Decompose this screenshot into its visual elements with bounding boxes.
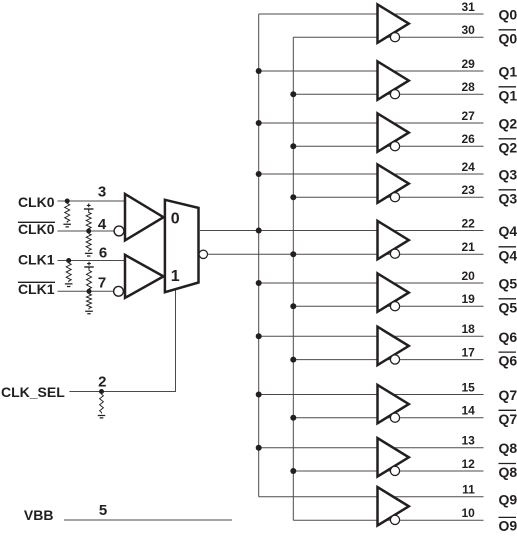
wire Q8 true row bbox=[259, 447, 484, 449]
svg-text:Q5: Q5 bbox=[499, 276, 517, 292]
svg-text:13: 13 bbox=[461, 434, 475, 448]
bias terminal VT2 bbox=[87, 262, 91, 266]
svg-text:7: 7 bbox=[98, 275, 106, 292]
wire Q2 complement row bbox=[293, 145, 483, 147]
wire Q3 complement row bbox=[293, 196, 483, 198]
resistor R5 (bias upper) bbox=[87, 269, 92, 290]
node complement bus junction Q2 bbox=[290, 143, 296, 149]
node CLK_SEL junction bbox=[99, 389, 104, 394]
svg-text:24: 24 bbox=[461, 160, 475, 174]
svg-text:Q8: Q8 bbox=[499, 464, 517, 480]
svg-text:15: 15 bbox=[461, 380, 475, 394]
output buffer Q9 bbox=[378, 487, 409, 525]
wire Q7 complement row bbox=[293, 417, 483, 419]
net label Q3 bar bbox=[499, 190, 517, 207]
net label Q6 bar bbox=[499, 352, 517, 369]
output buffer Q1 bbox=[378, 61, 409, 99]
svg-text:CLK_SEL: CLK_SEL bbox=[1, 384, 65, 400]
net label Q5 bar bbox=[499, 299, 517, 316]
svg-text:Q3: Q3 bbox=[499, 190, 517, 206]
output buffer Q7 bbox=[378, 385, 409, 423]
VBB label pin 5 bbox=[24, 502, 107, 523]
node CLK0 junction bbox=[65, 199, 70, 204]
svg-text:Q4: Q4 bbox=[499, 247, 517, 263]
wire Q3 true row bbox=[259, 173, 484, 175]
svg-text:27: 27 bbox=[461, 109, 475, 123]
svg-text:14: 14 bbox=[461, 404, 475, 418]
wire Q7 true row bbox=[259, 394, 484, 396]
resistor R2 (bias upper) bbox=[86, 211, 91, 230]
bubble Q9 complement output bbox=[390, 515, 399, 524]
bubble Q8 complement output bbox=[390, 466, 399, 475]
svg-text:Q8: Q8 bbox=[499, 440, 517, 456]
node complement bus junction Q5 bbox=[290, 303, 296, 309]
node CLK0bar junction bbox=[86, 229, 91, 234]
net label Q8 bar bbox=[499, 464, 517, 481]
node CLK1 junction bbox=[66, 258, 71, 263]
svg-text:2: 2 bbox=[98, 373, 106, 390]
svg-text:22: 22 bbox=[461, 216, 475, 230]
input buffer U2 (CLK0) bbox=[125, 194, 164, 240]
bubble U3 inverting input bbox=[114, 286, 124, 296]
wire CLK1bar bbox=[58, 290, 115, 292]
input CLK0 label pin 3 bbox=[18, 183, 106, 210]
wire Q6 complement row bbox=[293, 359, 483, 361]
svg-text:0: 0 bbox=[171, 211, 180, 228]
wire Q5 complement row bbox=[293, 305, 483, 307]
bubble Q0 complement output bbox=[390, 33, 399, 42]
wire Q6 true row bbox=[259, 335, 484, 337]
svg-text:Q0: Q0 bbox=[499, 30, 517, 46]
wire Q9 true row bbox=[259, 496, 484, 498]
node true bus junction Q5 bbox=[256, 280, 262, 286]
wire Q9 complement row bbox=[293, 519, 483, 521]
wire mux complement output bbox=[208, 253, 294, 255]
wire Q2 true row bbox=[259, 122, 484, 124]
input buffer U3 (CLK1) bbox=[125, 255, 164, 298]
wire Q0 true row bbox=[259, 13, 484, 15]
svg-text:21: 21 bbox=[461, 240, 475, 254]
wire mux true output bbox=[199, 230, 259, 232]
mux U1 2:1 bbox=[165, 200, 199, 292]
svg-text:26: 26 bbox=[461, 132, 475, 146]
svg-text:Q9: Q9 bbox=[499, 518, 517, 532]
output buffer Q4 bbox=[378, 221, 409, 259]
wire CLK_SEL bbox=[69, 290, 175, 392]
svg-text:CLK0: CLK0 bbox=[18, 221, 55, 237]
wire CLK0 bbox=[58, 200, 126, 202]
output buffer Q6 bbox=[378, 327, 409, 365]
output buffer Q5 bbox=[378, 273, 409, 311]
CLK0bar label pin 4 bbox=[18, 216, 107, 237]
svg-text:VBB: VBB bbox=[24, 507, 54, 523]
bubble Q3 complement output bbox=[390, 193, 399, 202]
node true bus junction Q6 bbox=[256, 333, 262, 339]
bubble Q7 complement output bbox=[390, 413, 399, 422]
node true bus junction Q1 bbox=[256, 68, 262, 74]
bubble mux complement output bbox=[199, 250, 207, 258]
net label Q2 bar bbox=[499, 139, 517, 156]
resistor R3 (bias lower) bbox=[85, 232, 93, 256]
CLK_SEL label pin 2 bbox=[1, 373, 106, 400]
node true bus junction Q4 bbox=[256, 228, 262, 234]
bubble Q6 complement output bbox=[390, 355, 399, 364]
output buffer Q2 bbox=[378, 113, 409, 151]
bubble U2 inverting input bbox=[114, 226, 124, 236]
svg-text:31: 31 bbox=[461, 0, 475, 14]
wire Q8 complement row bbox=[293, 470, 483, 472]
svg-text:Q7: Q7 bbox=[499, 411, 517, 427]
CLK1bar label pin 7 bbox=[18, 275, 106, 298]
wire Q4 true row bbox=[259, 230, 484, 232]
node CLK1bar junction bbox=[87, 289, 92, 294]
svg-text:19: 19 bbox=[461, 292, 475, 306]
svg-text:11: 11 bbox=[462, 483, 475, 497]
node complement bus junction Q4 bbox=[290, 251, 296, 257]
output buffer Q0 bbox=[378, 4, 409, 42]
wire Q5 true row bbox=[259, 282, 484, 284]
wire Q0 complement row bbox=[293, 36, 483, 38]
bus complement vertical bbox=[292, 37, 294, 520]
output buffer Q8 bbox=[378, 438, 409, 476]
node complement bus junction Q8 bbox=[290, 468, 296, 474]
svg-text:Q6: Q6 bbox=[499, 329, 517, 345]
svg-text:Q6: Q6 bbox=[499, 353, 517, 369]
output buffer Q3 bbox=[378, 164, 409, 202]
node true bus junction Q8 bbox=[256, 445, 262, 451]
svg-text:Q2: Q2 bbox=[499, 139, 517, 155]
svg-text:Q1: Q1 bbox=[499, 64, 517, 80]
wire VBB pin 5 bbox=[64, 519, 232, 521]
wire CLK0bar bbox=[58, 230, 115, 232]
bias terminal VT1 bbox=[87, 204, 91, 208]
svg-text:29: 29 bbox=[461, 57, 475, 71]
input CLK1 label pin 6 bbox=[18, 244, 107, 267]
svg-text:CLK0: CLK0 bbox=[18, 194, 55, 210]
svg-text:Q2: Q2 bbox=[499, 116, 517, 132]
svg-text:20: 20 bbox=[461, 269, 475, 283]
svg-text:18: 18 bbox=[461, 322, 475, 336]
svg-text:CLK1: CLK1 bbox=[18, 252, 55, 268]
node complement bus junction Q6 bbox=[290, 357, 296, 363]
resistor R7 (CLK_SEL pulldown) bbox=[98, 393, 105, 418]
svg-text:30: 30 bbox=[461, 23, 475, 37]
svg-text:CLK1: CLK1 bbox=[18, 281, 55, 297]
svg-text:28: 28 bbox=[461, 80, 475, 94]
node complement bus junction Q1 bbox=[290, 91, 296, 97]
node complement bus junction Q7 bbox=[290, 415, 296, 421]
net label Q9 bar bbox=[499, 517, 517, 533]
svg-text:23: 23 bbox=[461, 183, 475, 197]
svg-text:12: 12 bbox=[461, 457, 475, 471]
node true bus junction Q2 bbox=[256, 120, 262, 126]
svg-text:Q3: Q3 bbox=[499, 167, 517, 183]
svg-text:Q0: Q0 bbox=[499, 7, 517, 23]
resistor R6 (bias lower) bbox=[85, 293, 93, 314]
wire Q1 complement row bbox=[293, 93, 483, 95]
net label Q1 bar bbox=[499, 87, 517, 104]
svg-text:3: 3 bbox=[98, 183, 106, 200]
bubble Q5 complement output bbox=[390, 302, 399, 311]
wire Q1 true row bbox=[259, 70, 484, 72]
svg-text:5: 5 bbox=[99, 502, 107, 519]
svg-text:Q4: Q4 bbox=[499, 223, 517, 239]
wire CLK1 bbox=[58, 260, 126, 262]
bus true vertical bbox=[258, 14, 260, 497]
svg-text:17: 17 bbox=[461, 345, 475, 359]
bubble Q1 complement output bbox=[390, 90, 399, 99]
svg-text:10: 10 bbox=[461, 506, 475, 520]
svg-text:6: 6 bbox=[99, 244, 107, 261]
node true bus junction Q3 bbox=[256, 171, 262, 177]
svg-text:Q5: Q5 bbox=[499, 299, 517, 315]
resistor R1 (CLK0 pulldown) bbox=[63, 202, 71, 227]
net label Q0 bar bbox=[499, 30, 517, 47]
node true bus junction Q7 bbox=[256, 392, 262, 398]
resistor R4 (CLK1 pulldown) bbox=[65, 262, 73, 287]
svg-text:Q9: Q9 bbox=[499, 492, 517, 508]
svg-text:4: 4 bbox=[98, 216, 107, 233]
net label Q7 bar bbox=[499, 410, 517, 427]
node complement bus junction Q3 bbox=[290, 194, 296, 200]
wire Q4 complement row bbox=[293, 253, 483, 255]
svg-text:1: 1 bbox=[171, 268, 180, 285]
svg-text:Q7: Q7 bbox=[499, 387, 517, 403]
bubble Q4 complement output bbox=[390, 249, 399, 258]
bubble Q2 complement output bbox=[390, 142, 399, 151]
net label Q4 bar bbox=[499, 247, 517, 263]
svg-text:Q1: Q1 bbox=[499, 87, 517, 103]
